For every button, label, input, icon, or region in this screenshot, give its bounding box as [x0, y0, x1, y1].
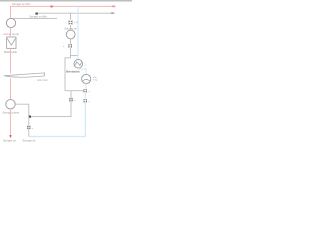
wire blue V5 down to corner — [29, 103, 86, 137]
svg-text:Somgst on Wrc: Somgst on Wrc — [12, 2, 31, 6]
wire pink mill to lens — [10, 48, 12, 73]
pump P5 circle — [6, 100, 15, 109]
arrow marker red on pink line — [51, 6, 53, 8]
coil HX2 — [83, 79, 90, 80]
arrowhead gray end — [112, 12, 114, 14]
svg-text:Somgst pump: Somgst pump — [3, 111, 20, 115]
svg-text:Brimbacha: Brimbacha — [66, 69, 80, 73]
valve V6 — [27, 126, 30, 130]
svg-text:mm l mm: mm l mm — [37, 78, 48, 82]
valve V1 — [69, 20, 73, 24]
wire gray column to valve V3 — [65, 90, 83, 92]
wire blue HX1 to HX2 — [78, 68, 86, 74]
svg-text:Somgst on Wrc: Somgst on Wrc — [29, 15, 47, 19]
svg-text:Somgst mi: Somgst mi — [3, 138, 16, 142]
svg-text:pump: pump — [12, 32, 19, 36]
wire gray B to arrow — [35, 12, 114, 14]
wire gray down from arrow — [28, 117, 30, 137]
arrowhead pink end — [113, 5, 115, 7]
wire pink main top — [11, 6, 115, 22]
wire blue between valves — [84, 93, 86, 99]
svg-text:Somgst mi: Somgst mi — [23, 138, 36, 142]
wire column corner to HX1 — [71, 48, 78, 56]
wire gray P5 to column — [15, 104, 29, 116]
coil HX1 — [75, 62, 82, 66]
wire blue vertical right — [77, 6, 79, 59]
dot V1 right — [76, 22, 77, 23]
wire pink P1 to mill — [10, 28, 12, 38]
node diamond on line — [36, 13, 38, 15]
pump P2 circle — [66, 30, 75, 39]
column vertical upper — [70, 13, 72, 20]
arrowhead gray left — [29, 116, 31, 118]
mill funnel — [7, 39, 15, 46]
wire pink P5 down arrow — [10, 109, 12, 136]
pump P1 circle — [6, 18, 15, 27]
lens clarifier — [4, 73, 45, 77]
heat exchanger HX1 — [74, 60, 83, 69]
valve V3 — [84, 89, 87, 93]
valve V2 — [68, 44, 72, 48]
heat exchanger HX2 — [82, 74, 91, 83]
top border line — [0, 0, 132, 2]
wire gray A from pump P1 — [12, 17, 58, 19]
arrowhead pink bottom — [9, 135, 12, 138]
wire gray HX1 to column lower — [65, 56, 71, 91]
wire blue HX2 down — [85, 84, 87, 89]
wire pink lens to pump P5 — [10, 78, 12, 100]
wire column — [70, 25, 72, 31]
wire gray corner to arrow — [31, 91, 72, 117]
svg-text:mm: mm — [93, 77, 97, 79]
valve V4 column x71 — [69, 98, 72, 102]
wire column — [70, 39, 72, 44]
mill vessel — [7, 37, 16, 48]
valve V5 blue column — [84, 99, 87, 103]
